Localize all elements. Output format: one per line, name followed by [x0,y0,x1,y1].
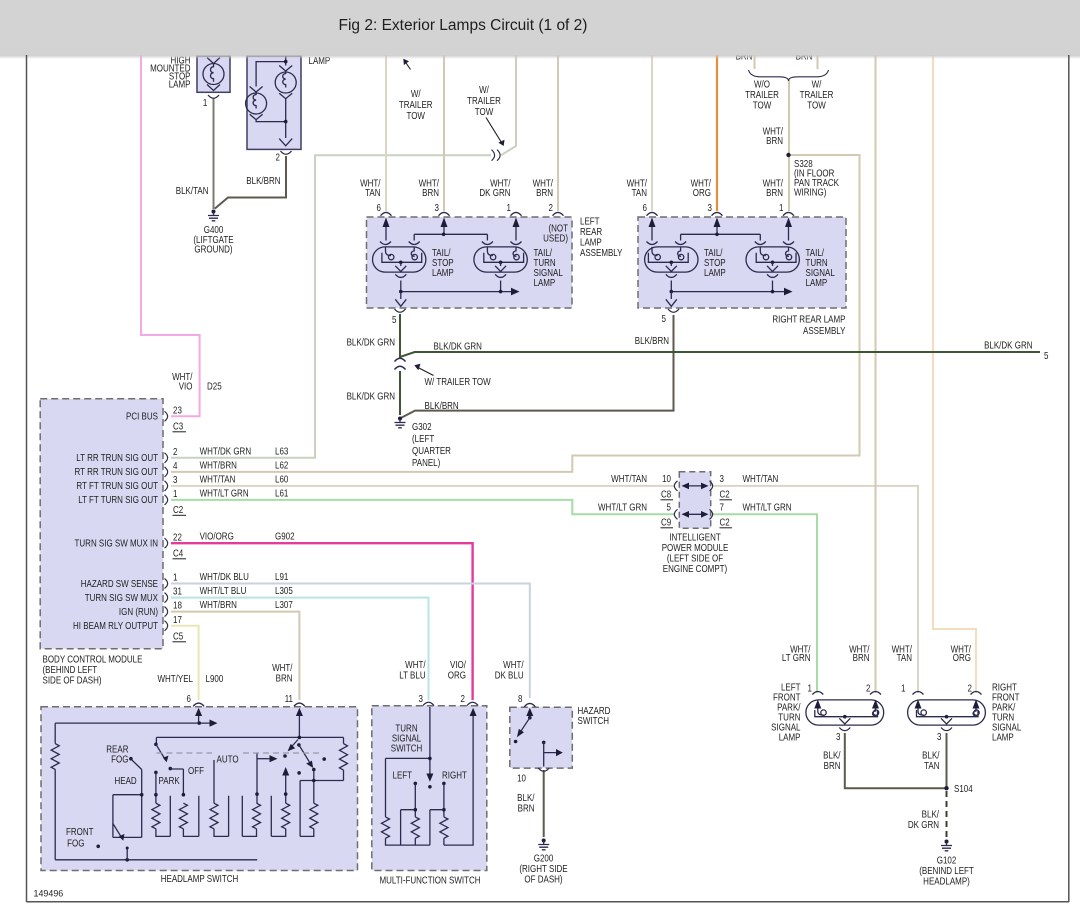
svg-text:LAMP: LAMP [534,277,556,288]
svg-text:HI BEAM RLY OUTPUT: HI BEAM RLY OUTPUT [73,620,158,631]
svg-text:ORG: ORG [448,670,466,681]
svg-text:WHT/LT BLU: WHT/LT BLU [200,585,247,596]
svg-text:17: 17 [173,614,182,625]
svg-text:11: 11 [285,693,293,704]
svg-text:BRN: BRN [853,652,870,663]
svg-text:OF DASH): OF DASH) [524,874,562,885]
svg-text:BODY CONTROL MODULE: BODY CONTROL MODULE [43,654,143,665]
svg-text:TRAILER: TRAILER [745,89,779,100]
svg-text:LAMP: LAMP [779,732,801,743]
svg-text:BLK/: BLK/ [823,750,841,761]
svg-text:DK GRN: DK GRN [479,187,510,198]
svg-text:SIDE OF DASH): SIDE OF DASH) [43,675,102,686]
svg-text:LAMP: LAMP [432,267,454,278]
svg-text:DK GRN: DK GRN [908,819,939,830]
svg-text:BLK/TAN: BLK/TAN [176,185,209,196]
svg-text:ASSEMBLY: ASSEMBLY [803,325,846,336]
svg-text:BLK/DK GRN: BLK/DK GRN [984,340,1032,351]
svg-text:C3: C3 [173,421,183,432]
svg-text:L91: L91 [275,571,288,582]
svg-text:RIGHT REAR LAMP: RIGHT REAR LAMP [772,314,845,325]
svg-text:10: 10 [517,773,526,784]
svg-text:3: 3 [419,693,423,704]
svg-text:ORG: ORG [693,187,711,198]
svg-text:LAMP: LAMP [169,79,191,90]
svg-text:C9: C9 [661,517,671,528]
svg-text:(RIGHT SIDE: (RIGHT SIDE [519,863,567,874]
svg-text:WHT/: WHT/ [405,659,426,670]
svg-text:LT GRN: LT GRN [782,652,811,663]
svg-text:AUTO: AUTO [217,754,239,765]
svg-text:22: 22 [173,532,182,543]
svg-text:PCI BUS: PCI BUS [126,411,158,422]
svg-text:PANEL): PANEL) [412,457,440,468]
svg-text:HEADLAMP): HEADLAMP) [923,876,970,887]
svg-text:VIO: VIO [179,381,193,392]
svg-text:LT BLU: LT BLU [399,670,425,681]
svg-text:TAN: TAN [924,760,939,771]
svg-text:TRAILER: TRAILER [467,95,501,106]
svg-text:1: 1 [173,572,177,583]
svg-text:WHT/BRN: WHT/BRN [200,460,237,471]
svg-text:SWITCH: SWITCH [578,715,610,726]
svg-text:W/: W/ [479,84,489,95]
svg-text:TRAILER: TRAILER [399,99,433,110]
svg-text:PARK: PARK [159,775,180,786]
svg-text:L305: L305 [275,585,293,596]
svg-text:TURN SIG SW MUX IN: TURN SIG SW MUX IN [75,538,158,549]
svg-text:BLK/DK GRN: BLK/DK GRN [347,337,395,348]
svg-text:2: 2 [549,202,553,213]
svg-text:5: 5 [667,502,671,513]
svg-text:3: 3 [937,731,941,742]
svg-text:ENGINE COMPT): ENGINE COMPT) [663,563,727,574]
svg-text:BRN: BRN [422,187,439,198]
svg-text:ASSEMBLY: ASSEMBLY [580,247,623,258]
svg-text:LT FT TURN SIG OUT: LT FT TURN SIG OUT [78,494,158,505]
svg-text:10: 10 [662,473,671,484]
svg-text:C8: C8 [661,489,671,500]
svg-text:BLK/: BLK/ [922,750,940,761]
svg-text:C5: C5 [173,631,183,642]
svg-text:L900: L900 [206,673,224,684]
svg-text:OFF: OFF [188,765,204,776]
svg-text:1: 1 [203,97,207,108]
svg-text:S104: S104 [954,783,973,794]
svg-text:5: 5 [662,313,666,324]
svg-text:C2: C2 [173,504,183,515]
svg-text:RT RR TRUN SIG OUT: RT RR TRUN SIG OUT [75,466,159,477]
svg-text:ORG: ORG [953,652,971,663]
svg-text:18: 18 [173,600,182,611]
svg-text:LAMP: LAMP [704,267,726,278]
svg-text:L61: L61 [275,488,288,499]
svg-text:BLK/: BLK/ [922,809,940,820]
svg-text:BRN: BRN [824,760,841,771]
svg-text:W/ TRAILER TOW: W/ TRAILER TOW [425,376,492,387]
svg-text:3: 3 [836,731,840,742]
svg-text:TOW: TOW [475,106,494,117]
svg-text:6: 6 [187,693,191,704]
svg-text:BRN: BRN [536,187,553,198]
svg-text:TOW: TOW [406,110,425,121]
svg-text:LEFT: LEFT [580,216,600,227]
svg-text:1: 1 [507,202,511,213]
svg-text:L60: L60 [275,474,288,485]
svg-text:BRN: BRN [276,673,293,684]
svg-text:4: 4 [173,460,177,471]
svg-text:TAN: TAN [897,652,912,663]
svg-text:WHT/LT GRN: WHT/LT GRN [598,502,647,513]
svg-text:LAMP: LAMP [580,237,602,248]
svg-text:SWITCH: SWITCH [391,743,423,754]
svg-text:3: 3 [173,474,177,485]
svg-text:3: 3 [708,202,712,213]
svg-text:W/O: W/O [754,79,770,90]
svg-text:2: 2 [968,683,972,694]
svg-text:BLK/DK GRN: BLK/DK GRN [347,391,395,402]
svg-text:(BEHIND LEFT: (BEHIND LEFT [43,664,98,675]
svg-text:L63: L63 [275,446,288,457]
svg-text:2: 2 [461,693,465,704]
svg-text:WHT/LT GRN: WHT/LT GRN [200,488,249,499]
svg-text:D25: D25 [207,381,222,392]
svg-text:C2: C2 [720,517,730,528]
svg-text:BRN: BRN [518,803,535,814]
svg-text:WHT/LT GRN: WHT/LT GRN [743,502,792,513]
svg-text:DK BLU: DK BLU [495,670,524,681]
svg-text:2: 2 [866,683,870,694]
svg-text:1: 1 [901,683,905,694]
svg-text:TAN: TAN [365,187,380,198]
svg-text:BLK/: BLK/ [517,792,535,803]
svg-text:WHT/DK GRN: WHT/DK GRN [200,446,252,457]
svg-text:VIO/ORG: VIO/ORG [200,531,234,542]
svg-text:C2: C2 [720,489,730,500]
svg-text:HEADLAMP SWITCH: HEADLAMP SWITCH [161,873,239,884]
svg-text:WHT/BRN: WHT/BRN [200,599,237,610]
svg-text:23: 23 [173,405,182,416]
svg-text:VIO/: VIO/ [450,659,466,670]
svg-text:GROUND): GROUND) [194,244,232,255]
svg-text:6: 6 [643,202,647,213]
svg-text:BRN: BRN [766,187,783,198]
svg-text:WHT/DK BLU: WHT/DK BLU [200,571,249,582]
svg-text:LAMP: LAMP [806,277,828,288]
svg-text:TOW: TOW [753,100,772,111]
svg-text:LT RR TRUN SIG OUT: LT RR TRUN SIG OUT [76,452,158,463]
svg-text:MULTI-FUNCTION SWITCH: MULTI-FUNCTION SWITCH [379,875,480,886]
svg-text:FOG: FOG [111,754,128,765]
svg-text:USED): USED) [543,233,568,244]
svg-text:WHT/: WHT/ [503,659,524,670]
svg-text:BLK/BRN: BLK/BRN [425,400,459,411]
svg-text:TAN: TAN [632,187,647,198]
svg-text:W/: W/ [812,79,822,90]
svg-text:LEFT: LEFT [393,770,413,781]
svg-text:WHT/TAN: WHT/TAN [200,474,236,485]
svg-text:HAZARD SW SENSE: HAZARD SW SENSE [81,578,158,589]
svg-text:TRAILER: TRAILER [800,89,834,100]
svg-text:WHT/: WHT/ [272,662,293,673]
svg-text:G200: G200 [534,853,554,864]
svg-text:G902: G902 [275,531,295,542]
svg-text:L307: L307 [275,599,293,610]
svg-text:RIGHT: RIGHT [442,770,467,781]
svg-text:BRN: BRN [766,135,783,146]
svg-text:(BENIND LEFT: (BENIND LEFT [919,865,974,876]
svg-text:RT FT TRUN SIG OUT: RT FT TRUN SIG OUT [76,480,158,491]
svg-text:7: 7 [720,502,724,513]
svg-text:2: 2 [173,446,177,457]
svg-text:3: 3 [720,473,724,484]
svg-text:(LEFT: (LEFT [412,433,435,444]
svg-text:WHT/TAN: WHT/TAN [743,473,779,484]
svg-text:WIRING): WIRING) [794,187,826,198]
svg-text:6: 6 [377,202,381,213]
svg-text:IGN (RUN): IGN (RUN) [119,606,158,617]
svg-text:8: 8 [518,693,522,704]
svg-text:TOW: TOW [807,100,826,111]
svg-text:1: 1 [779,202,783,213]
svg-text:REAR: REAR [580,226,603,237]
svg-text:1: 1 [808,683,812,694]
svg-text:3: 3 [435,202,439,213]
svg-text:C4: C4 [173,548,183,559]
svg-text:31: 31 [173,586,182,597]
svg-text:G302: G302 [412,421,432,432]
svg-text:INTELLIGENT: INTELLIGENT [669,532,721,543]
svg-text:5: 5 [1044,350,1048,361]
svg-text:1: 1 [173,488,177,499]
svg-text:L62: L62 [275,460,288,471]
svg-text:LAMP: LAMP [992,732,1014,743]
svg-text:QUARTER: QUARTER [412,445,451,456]
svg-text:149496: 149496 [34,888,64,898]
svg-text:2: 2 [276,152,280,163]
svg-text:FRONT: FRONT [66,826,94,837]
svg-text:5: 5 [392,314,396,325]
svg-text:W/: W/ [411,88,421,99]
svg-text:WHT/YEL: WHT/YEL [157,673,193,684]
svg-text:(LEFT SIDE OF: (LEFT SIDE OF [667,553,724,564]
svg-text:BLK/BRN: BLK/BRN [246,175,280,186]
svg-text:G102: G102 [937,855,957,866]
svg-text:HEAD: HEAD [115,775,138,786]
svg-text:WHT/TAN: WHT/TAN [611,473,647,484]
svg-text:BLK/BRN: BLK/BRN [635,335,669,346]
svg-text:FOG: FOG [67,838,84,849]
svg-text:BLK/DK GRN: BLK/DK GRN [434,341,482,352]
svg-text:TURN SIG SW MUX: TURN SIG SW MUX [85,592,158,603]
svg-text:Fig 2: Exterior Lamps Circuit: Fig 2: Exterior Lamps Circuit (1 of 2) [339,17,588,34]
svg-text:POWER MODULE: POWER MODULE [662,542,729,553]
